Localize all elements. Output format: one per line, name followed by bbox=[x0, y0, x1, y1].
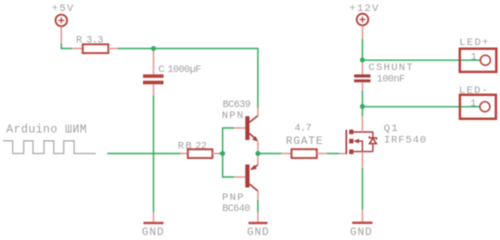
connector LED+ pad circle bbox=[480, 55, 490, 65]
supply +5V pin bbox=[60, 26, 62, 43]
ground symbol right bbox=[352, 222, 372, 224]
transistor Q2 collector pin bbox=[257, 108, 259, 116]
svg-text:IRF540: IRF540 bbox=[384, 134, 427, 146]
svg-text:RB: RB bbox=[178, 141, 193, 153]
transistor Q3 base pin bbox=[234, 176, 245, 178]
wire base bus bbox=[223, 128, 234, 177]
supply +12V pin bbox=[362, 25, 364, 39]
capacitor C2 pin top bbox=[361, 60, 363, 74]
mosfet Q1 source link bbox=[353, 151, 373, 153]
node A junction bbox=[151, 46, 156, 51]
svg-text:Q1: Q1 bbox=[384, 123, 399, 135]
connector LED- body bbox=[460, 95, 496, 119]
resistor R3 body bbox=[292, 149, 317, 158]
wire emitters to RGATE bbox=[258, 153, 281, 155]
ground pin middle bbox=[257, 212, 259, 222]
svg-text:PNP: PNP bbox=[222, 192, 245, 204]
capacitor C1 pin bottom bbox=[153, 84, 155, 95]
svg-text:1000µF: 1000µF bbox=[168, 65, 202, 76]
svg-text:C: C bbox=[158, 64, 166, 76]
connector LED- pad circle bbox=[480, 102, 490, 112]
mosfet Q1 body diode bbox=[372, 132, 374, 152]
mosfet Q1 channel squares bbox=[349, 130, 353, 155]
resistor R3 pin right bbox=[317, 153, 327, 155]
resistor R1 pin left bbox=[72, 48, 83, 50]
mosfet Q1 gate bar bbox=[345, 130, 347, 154]
transistor Q2 emitter pin bbox=[257, 142, 259, 154]
resistor R1 pin right bbox=[108, 48, 118, 50]
supply +5V symbol bbox=[56, 15, 68, 27]
resistor R2 pin right bbox=[212, 153, 219, 155]
resistor R2 body bbox=[188, 149, 213, 158]
wire RGATE to gate bbox=[327, 153, 339, 155]
wire C2 to node C bbox=[361, 91, 363, 107]
node B junction bbox=[360, 58, 365, 63]
capacitor C1 pin top bbox=[153, 49, 155, 75]
wire +12V down to node B bbox=[361, 39, 363, 60]
svg-text:GND: GND bbox=[142, 227, 165, 238]
svg-text:1: 1 bbox=[470, 99, 476, 110]
connector LED+ body bbox=[460, 49, 497, 72]
svg-text:NPN: NPN bbox=[222, 110, 245, 122]
transistor Q2 collector bbox=[249, 116, 258, 123]
wire R1 to node A and NPN collector bbox=[118, 49, 258, 108]
wire C1 to GND bbox=[153, 96, 155, 213]
node emitter junction bbox=[255, 151, 260, 156]
note PWM waveform bbox=[3, 141, 96, 154]
mosfet Q1 drain link bbox=[353, 131, 373, 133]
ground symbol left bbox=[144, 222, 164, 224]
node base junction bbox=[220, 151, 225, 156]
transistor Q3 collector pin bbox=[257, 191, 259, 200]
mosfet Q1 drain pin bbox=[361, 116, 363, 132]
svg-text:+5V: +5V bbox=[52, 3, 75, 15]
svg-text:Arduino ШИМ: Arduino ШИМ bbox=[6, 123, 87, 136]
svg-text:BC640: BC640 bbox=[222, 204, 250, 215]
svg-text:+12V: +12V bbox=[349, 3, 379, 15]
mosfet Q1 bulk arrow bbox=[353, 139, 359, 144]
wire node C to mosfet drain bbox=[361, 107, 363, 117]
svg-text:GND: GND bbox=[350, 227, 373, 238]
transistor Q2 emitter with arrow bbox=[249, 134, 256, 140]
svg-text:22: 22 bbox=[195, 142, 207, 153]
wire PNP collector to GND bbox=[257, 200, 259, 212]
transistor Q3 collector bbox=[250, 184, 258, 191]
transistor Q3 base bar bbox=[245, 165, 249, 188]
wire PWM input bbox=[107, 153, 180, 155]
transistor Q3 emitter pin bbox=[257, 154, 259, 165]
ground pin left bbox=[153, 212, 155, 222]
resistor R3 pin left bbox=[281, 153, 292, 155]
capacitor C2 pin bottom bbox=[361, 82, 363, 91]
capacitor C2 body bbox=[354, 74, 370, 82]
svg-text:CSHUNT: CSHUNT bbox=[368, 62, 414, 74]
wire +5V to R1 bbox=[61, 44, 72, 49]
svg-text:RGATE: RGATE bbox=[286, 136, 324, 148]
supply +12V symbol bbox=[357, 14, 369, 26]
svg-text:GND: GND bbox=[247, 227, 270, 238]
wire mosfet source to GND bbox=[361, 168, 363, 210]
svg-text:4.7: 4.7 bbox=[295, 124, 312, 135]
ground pin right bbox=[361, 210, 363, 222]
mosfet Q1 gate pin bbox=[339, 153, 345, 155]
ground symbol middle bbox=[249, 222, 268, 224]
capacitor C1 body bbox=[143, 74, 164, 84]
transistor Q2 base bar bbox=[245, 116, 249, 140]
wire RB to base bus bbox=[219, 153, 223, 155]
resistor R2 pin left bbox=[181, 153, 189, 155]
svg-text:100nF: 100nF bbox=[377, 74, 405, 85]
node C junction bbox=[360, 104, 365, 109]
transistor Q3 emitter with arrow bbox=[251, 165, 258, 169]
transistor Q2 base pin bbox=[234, 127, 245, 129]
wire node C to LED- bbox=[362, 106, 480, 108]
svg-text:1: 1 bbox=[471, 53, 477, 64]
svg-text:LED+: LED+ bbox=[459, 37, 489, 49]
mosfet Q1 source pin bbox=[361, 152, 363, 168]
resistor R1 body bbox=[83, 44, 109, 53]
wire node B to LED+ bbox=[362, 59, 480, 61]
